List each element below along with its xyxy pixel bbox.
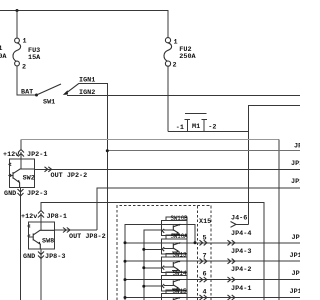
svg-text:M1: M1 xyxy=(192,123,200,131)
svg-text:JP1: JP1 xyxy=(290,288,301,296)
svg-text:SW15: SW15 xyxy=(173,288,187,295)
svg-text:+12v: +12v xyxy=(21,213,37,221)
svg-text:SW8: SW8 xyxy=(42,238,54,246)
svg-text:15A: 15A xyxy=(28,54,41,62)
svg-text:GND: GND xyxy=(23,253,35,261)
svg-text:100A: 100A xyxy=(0,53,7,61)
svg-text:JP2-3: JP2-3 xyxy=(27,190,47,198)
svg-text:-1: -1 xyxy=(176,124,184,132)
svg-text:JP1: JP1 xyxy=(290,252,301,260)
svg-text:4: 4 xyxy=(203,289,207,297)
svg-text:JP1: JP1 xyxy=(292,270,301,278)
svg-text:OUT JP2-2: OUT JP2-2 xyxy=(51,172,88,180)
svg-text:JP4-3: JP4-3 xyxy=(231,248,251,256)
svg-text:5: 5 xyxy=(203,235,207,243)
svg-text:2: 2 xyxy=(22,64,26,72)
svg-text:J4-6: J4-6 xyxy=(231,215,247,223)
svg-text:JP4-2: JP4-2 xyxy=(231,266,251,274)
svg-text:250A: 250A xyxy=(179,53,196,61)
svg-text:SW2: SW2 xyxy=(23,174,35,182)
svg-text:JP4-4: JP4-4 xyxy=(231,230,251,238)
svg-text:SW13: SW13 xyxy=(173,252,187,259)
svg-text:SW1: SW1 xyxy=(43,99,55,107)
svg-text:1: 1 xyxy=(174,38,178,46)
svg-text:JP8-1: JP8-1 xyxy=(47,213,67,221)
svg-text:OUT JP8-2: OUT JP8-2 xyxy=(69,233,106,241)
svg-text:BAT: BAT xyxy=(21,89,33,97)
svg-text:6: 6 xyxy=(203,271,207,279)
svg-text:SW14: SW14 xyxy=(173,270,187,277)
svg-text:JP1: JP1 xyxy=(291,160,300,168)
svg-text:FU1: FU1 xyxy=(0,45,2,53)
svg-text:JP2-1: JP2-1 xyxy=(27,151,47,159)
svg-text:JP4-1: JP4-1 xyxy=(231,285,251,293)
svg-text:X15: X15 xyxy=(199,218,211,226)
svg-text:2: 2 xyxy=(173,62,177,70)
svg-text:-2: -2 xyxy=(208,124,216,132)
svg-text:SW16B: SW16B xyxy=(171,215,188,222)
svg-text:GND: GND xyxy=(4,190,16,198)
svg-text:JP1: JP1 xyxy=(294,143,300,151)
svg-text:JP1: JP1 xyxy=(292,234,301,242)
svg-text:SW16A: SW16A xyxy=(171,233,188,240)
svg-text:JP1: JP1 xyxy=(291,178,300,186)
svg-text:+12v: +12v xyxy=(3,151,19,159)
svg-text:JP8-3: JP8-3 xyxy=(45,253,65,261)
svg-text:1: 1 xyxy=(23,38,27,46)
svg-text:7: 7 xyxy=(203,253,207,261)
